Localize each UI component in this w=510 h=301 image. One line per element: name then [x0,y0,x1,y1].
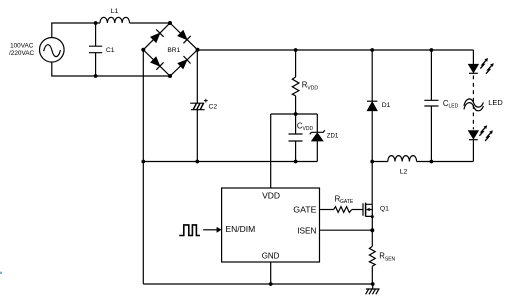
svg-text:VDD: VDD [303,126,314,132]
label + of C2 [204,99,208,103]
capacitor C2 (electrolytic) [190,50,204,162]
EN/DIM input arrow [203,227,221,233]
wire: AC top to L1 [52,23,100,38]
svg-text:ZD1: ZD1 [327,133,339,140]
node: bridge right vertex [196,48,200,52]
wire: GND pin to ground rail [270,262,272,284]
node: minus rail dot at C2 [195,160,199,164]
label C_LED [443,99,459,110]
LED D2 (top of string) [468,50,493,74]
wire: ground rail [143,283,372,285]
EN/DIM pulse waveform [179,225,200,236]
node: plus rail dot at R_VDD [294,48,298,52]
svg-text:BR1: BR1 [167,47,180,54]
svg-text:GATE: GATE [293,205,317,215]
node: plus rail dot at D1 [370,48,374,52]
svg-text:Q1: Q1 [380,205,389,212]
inductor L1 [100,17,130,23]
node: D1/L2/drain junction [370,160,374,164]
wire: AC bottom to bridge bottom [52,62,170,76]
svg-text:VDD: VDD [262,191,280,201]
resistor R_GATE [334,207,352,213]
node: plus rail dot at C_LED [430,48,434,52]
resistor R_SEN [369,217,375,284]
svg-text:100VAC: 100VAC [10,43,34,50]
svg-text:GATE: GATE [340,199,354,205]
diode D1 [367,50,377,204]
ground [366,284,380,294]
svg-text:EN/DIM: EN/DIM [225,224,255,234]
label 100VAC/220VAC [9,43,35,57]
wire: GATE pin to R_GATE [320,209,334,211]
node: ground rail dot at GND pin [269,282,273,286]
wire: ISEN pin to Q1 source [320,229,373,231]
svg-text:LED: LED [449,104,459,110]
capacitor C_VDD [289,114,303,162]
node: bridge bottom vertex [168,74,172,78]
capacitor C_LED [424,50,438,162]
stray teal mark at left edge [0,272,2,274]
node: Q1 source dot [371,215,374,218]
IC U1 LED driver controller box [222,188,320,262]
label C_VDD [297,121,314,132]
node: ISEN junction dot [370,228,374,232]
diode in BR1 bottom-left [151,57,164,70]
label R_GATE [335,195,354,206]
LED D3 (bottom of string) [468,125,492,161]
node: L2 rail dot at C_LED [430,160,434,164]
wire: dashed LED string [472,76,474,130]
LED string break symbol [464,99,484,111]
svg-text:GND: GND [262,251,280,261]
node: ground rail dot at R_SEN [371,282,375,286]
label R_SEN [379,252,395,263]
svg-text:LED: LED [488,98,502,107]
wire: plus rail (bridge right vertex to LED branch) [198,49,474,51]
wire: R_GATE to Q1 gate [352,209,363,211]
zener diode ZD1 [310,114,325,162]
svg-text:ISEN: ISEN [297,225,316,235]
node: VDD node dot [294,112,298,116]
label R_VDD [302,81,319,92]
wire: minus vertical from bridge left vertex down to ground rail [142,50,144,284]
transistor Q1 (N-MOSFET) [363,203,372,217]
wire: L2 to LED branch bottom [431,161,473,163]
svg-text:L1: L1 [111,8,119,15]
svg-text:C2: C2 [209,103,218,110]
AC source V1 [40,38,65,63]
node: minus rail dot at C_VDD [294,160,298,164]
node: top junction dot at C1 [94,21,98,25]
svg-text:SEN: SEN [385,256,396,262]
resistor R_VDD [292,50,299,114]
wire: VDD pin wire (crosses minus rail) [270,114,272,188]
wire: minus rail (bridge minus to ZD1) [143,161,317,163]
svg-text:VDD: VDD [307,85,318,91]
capacitor C1 [89,23,102,76]
svg-text:L2: L2 [400,169,408,176]
inductor L2 [372,156,431,162]
wire: VDD node top edge [271,113,318,115]
bridge rectifier BR1 [143,23,197,76]
svg-text:/220VAC: /220VAC [9,50,35,57]
svg-text:C1: C1 [106,47,115,54]
node: minus rail dot [141,160,145,164]
diode in BR1 top-left [151,29,164,42]
node: bottom junction dot at C1 [94,74,98,78]
wire: L1 to bridge top [130,22,171,24]
svg-text:D1: D1 [382,102,391,109]
node: bridge top vertex [168,21,172,25]
diode in BR1 top-right [178,31,191,44]
node: bridge left vertex [141,48,145,52]
diode in BR1 bottom-right [178,56,191,69]
